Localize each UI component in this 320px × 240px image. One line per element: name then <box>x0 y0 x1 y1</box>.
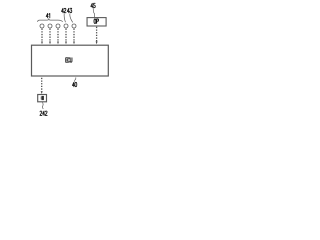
leader 45 <box>93 8 94 17</box>
leader 43 <box>70 14 73 23</box>
leader 42 <box>64 14 65 23</box>
dashed wire OP to ECU <box>96 27 98 42</box>
sensor circle 3 <box>56 24 60 28</box>
arrowhead wire4 <box>65 42 67 45</box>
label 242 <box>40 111 47 115</box>
brace over sensor group 41 <box>37 19 62 22</box>
label 40 <box>72 82 76 86</box>
background <box>0 0 141 120</box>
actuator icon <box>42 96 44 100</box>
leader 242 <box>41 102 44 109</box>
label 41 <box>46 13 50 17</box>
sensor circle 1 <box>40 24 44 28</box>
arrowhead wire OP <box>96 42 98 45</box>
sensor circle 2 <box>48 24 52 28</box>
dashed wire sensor3 to ECU <box>57 29 59 42</box>
arrowhead wire1 <box>41 42 43 45</box>
dashed wire sensor1 to ECU <box>41 29 43 42</box>
ECU box 40 <box>32 45 109 76</box>
label 45 <box>91 3 96 7</box>
label 43 <box>67 8 72 12</box>
actuator icon shade <box>40 97 43 100</box>
OP text <box>94 19 99 23</box>
sensor circle 5 <box>72 24 76 28</box>
dashed wire sensor2 to ECU <box>49 29 51 42</box>
dashed wire ECU to actuator 242 <box>41 78 43 92</box>
dashed wire sensor4 to ECU <box>65 29 67 42</box>
arrowhead wire5 <box>73 42 75 45</box>
sensor circle 4 <box>64 24 68 28</box>
arrowhead wire actuator <box>41 91 43 94</box>
arrowhead wire3 <box>57 42 59 45</box>
dashed wire sensor5 to ECU <box>73 29 75 42</box>
actuator box 242 <box>38 95 47 102</box>
leader 40 <box>75 77 76 82</box>
arrowhead wire2 <box>49 42 51 45</box>
label 42 <box>62 8 67 12</box>
OP box 45 <box>87 18 106 26</box>
ECU text <box>66 58 72 62</box>
